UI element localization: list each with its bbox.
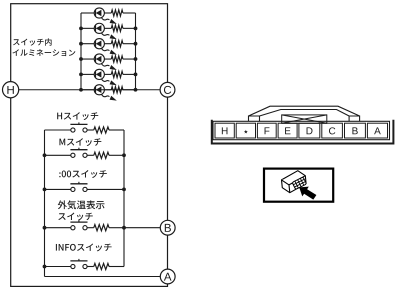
switch SW5 (INFO) with resistor xyxy=(45,259,125,270)
connector cavity C xyxy=(322,123,343,138)
wire: switch ladder right rail xyxy=(123,130,125,267)
view-direction icon frame xyxy=(264,169,333,202)
junction dots LED branch 4 xyxy=(79,57,137,61)
terminal B xyxy=(160,220,175,235)
LED 2 (switch illumination) xyxy=(81,23,117,39)
component outline: switch assembly boundary xyxy=(11,4,168,287)
resistor for LED 1 xyxy=(104,10,135,16)
wire: terminal H to terminal C xyxy=(19,89,160,91)
connector hood (raised key housing) xyxy=(249,106,360,121)
connector cavity A xyxy=(367,123,387,138)
connector body outline xyxy=(213,121,390,139)
junction dots M branch xyxy=(43,153,126,157)
label: 外気温表示スイッチ xyxy=(58,200,105,220)
connector cavity D xyxy=(299,123,320,138)
LED 6 (switch illumination) xyxy=(81,85,117,101)
terminal C xyxy=(160,82,175,97)
view arrow xyxy=(299,187,316,200)
resistor for LED 4 xyxy=(104,56,135,62)
wire: LED bank right rail xyxy=(135,13,137,90)
connector 3D pictogram xyxy=(282,171,307,193)
label: Mスイッチ xyxy=(59,138,101,146)
resistor for LED 2 xyxy=(104,25,135,31)
wire: right rail junction to terminal B xyxy=(124,227,160,229)
switch SW2 (M) with resistor xyxy=(45,148,125,159)
wire: ladder bottom to terminal A xyxy=(45,276,161,278)
switch SW3 (:00) xyxy=(45,182,125,192)
LED 1 (switch illumination) xyxy=(81,8,117,24)
junction: LED rails on H-C wire xyxy=(79,88,137,92)
terminal A xyxy=(160,269,175,284)
wire: LED bank left rail xyxy=(80,13,82,90)
connector cavity F xyxy=(257,123,276,138)
label: switch illumination (スイッチ内 / イルミネーション) xyxy=(13,38,76,56)
resistor for LED 5 xyxy=(104,71,135,77)
junction dots LED branch 3 xyxy=(79,42,137,46)
wire: switch ladder left rail xyxy=(44,130,46,277)
label: :00スイッチ xyxy=(59,170,107,178)
label: Hスイッチ xyxy=(57,112,98,120)
connector cavity B xyxy=(345,123,366,138)
label: INFOスイッチ xyxy=(56,243,112,251)
LED 4 (switch illumination) xyxy=(81,54,117,70)
terminal H xyxy=(3,82,19,98)
connector cavity star xyxy=(236,123,255,138)
resistor for LED 6 xyxy=(104,87,135,93)
connector base bracket xyxy=(212,120,394,144)
junction dots LED branch 2 xyxy=(79,26,137,30)
junction dots outside-temp branch xyxy=(43,226,126,230)
LED 5 (switch illumination) xyxy=(81,69,117,85)
connector cavity H xyxy=(215,123,234,138)
connector cavity E xyxy=(278,123,297,138)
junction dots :00 branch xyxy=(43,188,126,192)
LED 3 (switch illumination) xyxy=(81,39,117,55)
resistor for LED 3 xyxy=(104,41,135,47)
switch SW1 (H) with resistor xyxy=(45,122,125,133)
switch SW4 (outside temp display) with resistor xyxy=(45,220,125,231)
junction dots LED branch 5 xyxy=(79,73,137,77)
connector latch (crossed box) xyxy=(282,115,327,123)
junction dot INFO branch left xyxy=(43,265,47,269)
